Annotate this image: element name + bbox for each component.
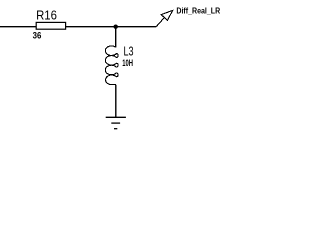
- inductor L3: [105, 46, 118, 85]
- wire W4: vertical L3 to ground: [115, 85, 117, 118]
- resistor R16: [36, 22, 65, 29]
- svg-text:10H: 10H: [122, 58, 133, 69]
- svg-text:36: 36: [33, 30, 42, 41]
- wire W5: diagonal to off-page arrow: [156, 18, 164, 27]
- wire W2: horizontal from R16 through junction: [66, 26, 157, 28]
- junction dot: [114, 25, 118, 29]
- off-page connector arrow (open head): [161, 10, 172, 20]
- svg-text:R16: R16: [36, 8, 57, 23]
- wire W1: left horizontal into R16: [0, 26, 37, 28]
- wire W3: vertical junction to L3: [115, 27, 117, 48]
- ground: [106, 117, 126, 128]
- svg-text:Diff_Real_LR: Diff_Real_LR: [176, 6, 220, 16]
